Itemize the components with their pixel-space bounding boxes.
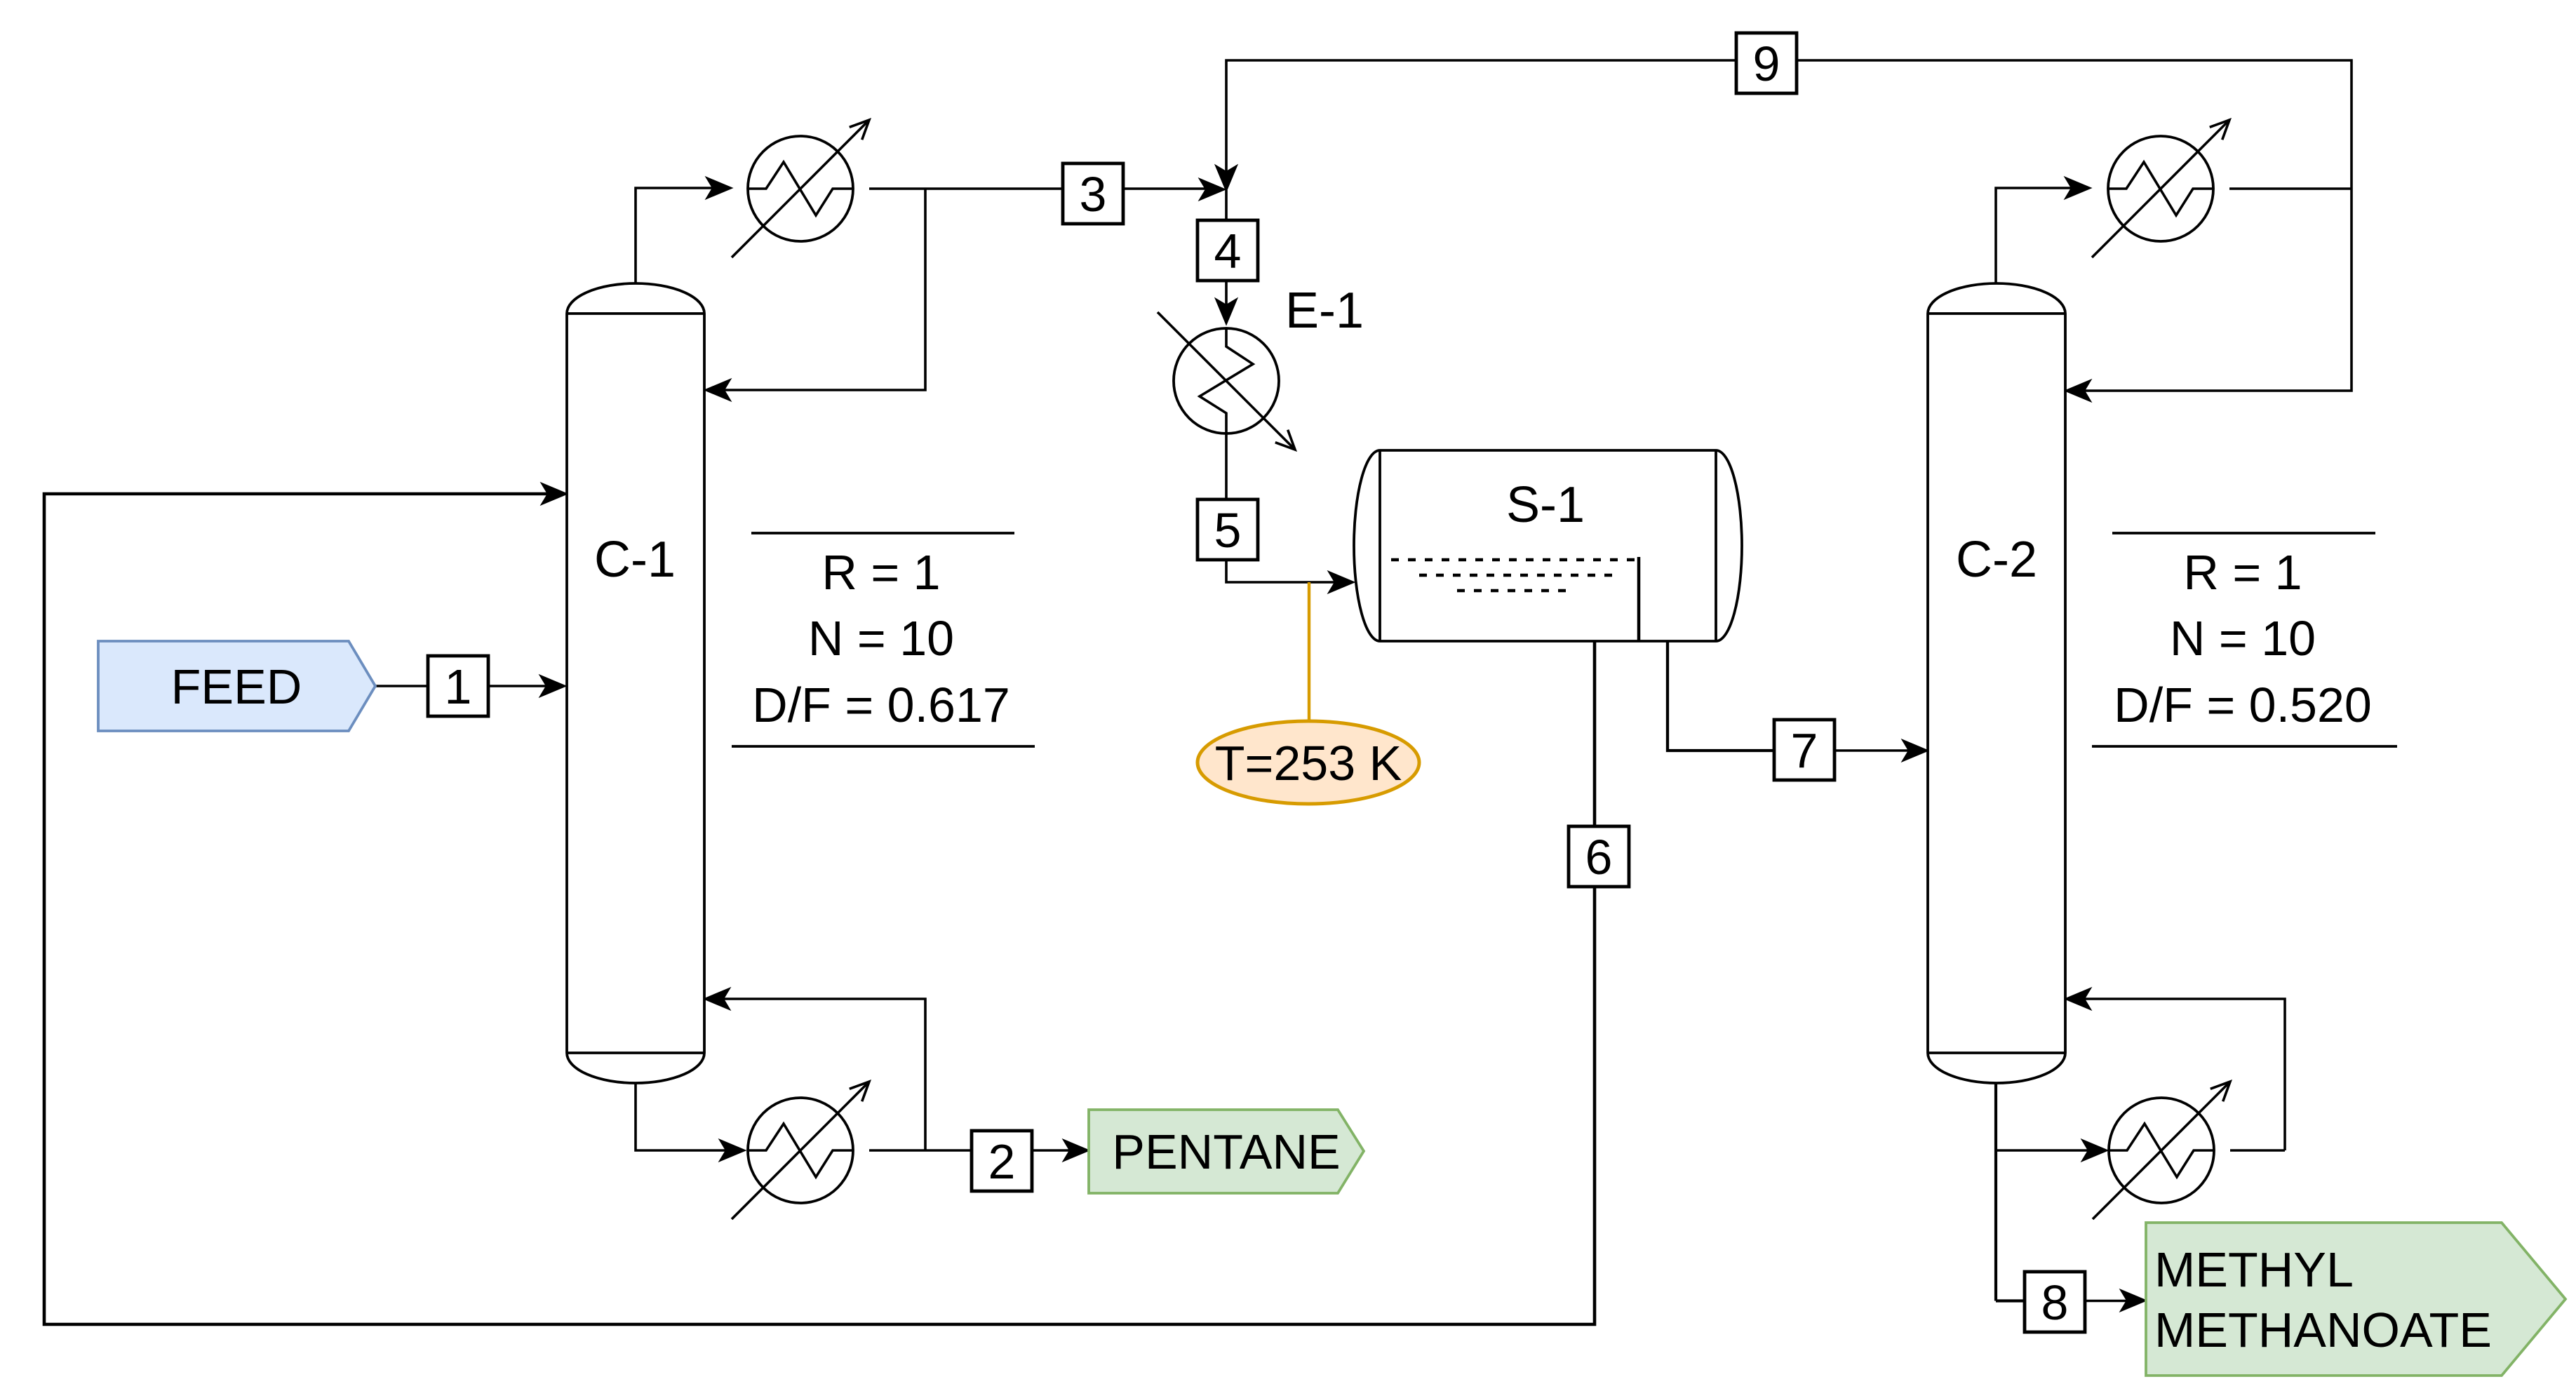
wire stream 1 from FEED to box 1: [375, 685, 428, 687]
wire stream 1 from box 1 to C-1: [488, 685, 549, 687]
svg-text:8: 8: [2041, 1275, 2069, 1330]
C-1 spec top rule: [751, 532, 1014, 535]
C-2 spec bottom rule: [2092, 745, 2397, 748]
svg-text:T=253 K: T=253 K: [1215, 736, 1402, 791]
wire stream 2 to PENTANE: [1032, 1149, 1072, 1152]
condenser of C-2: [2108, 136, 2213, 241]
svg-text:C-1: C-1: [594, 532, 676, 588]
wire stream 5 box 5 to S-1: [1226, 560, 1337, 582]
wire callout connector (orange): [1308, 582, 1310, 721]
svg-text:7: 7: [1791, 723, 1818, 778]
S-1 liquid level dashes row 1: [1391, 558, 1635, 562]
wire reflux to C-1: [722, 189, 925, 390]
cooler E-1: [1174, 328, 1279, 433]
node stream box 1: [428, 656, 488, 716]
column C-1: [567, 283, 704, 1083]
svg-text:METHYL: METHYL: [2154, 1242, 2354, 1297]
svg-text:5: 5: [1214, 503, 1242, 558]
node stream box 3: [1063, 163, 1123, 224]
svg-text:S-1: S-1: [1506, 477, 1585, 533]
wire C-1 bottoms to reboiler: [636, 1082, 728, 1150]
svg-text:9: 9: [1753, 36, 1780, 91]
svg-text:4: 4: [1214, 224, 1242, 278]
wire reboiler 1 outlet: [869, 1149, 972, 1152]
wire stream 6 recycle loop: [44, 494, 1595, 1324]
svg-text:D/F = 0.520: D/F = 0.520: [2114, 678, 2372, 732]
wire C-2 bottoms to reboiler 2: [1996, 1149, 2091, 1152]
svg-text:6: 6: [1585, 830, 1613, 885]
wire stream 4 junction to box 4: [1225, 190, 1228, 220]
svg-text:3: 3: [1080, 167, 1107, 222]
node stream box 7: [1774, 720, 1834, 780]
PENTANE product banner: [1089, 1110, 1364, 1193]
wire boilup return to C-1: [721, 999, 925, 1150]
wire C-2 bottoms: [1994, 1082, 1997, 1301]
node stream box 4: [1198, 220, 1258, 281]
temperature callout T=253 K: [1198, 721, 1419, 804]
svg-text:D/F = 0.617: D/F = 0.617: [752, 678, 1010, 732]
S-1 liquid level dashes row 2: [1419, 574, 1620, 577]
node stream box 8: [2025, 1272, 2085, 1332]
svg-text:R = 1: R = 1: [2183, 545, 2302, 600]
svg-text:1: 1: [445, 659, 472, 714]
wire stream 9 recycle: [1226, 60, 2352, 189]
reboiler of C-1: [748, 1098, 853, 1203]
node stream box 9: [1736, 33, 1797, 93]
wire stream 7 S-1 to box 7: [1668, 641, 1775, 751]
svg-text:PENTANE: PENTANE: [1112, 1124, 1340, 1179]
wire stream 8 to product: [2084, 1300, 2129, 1303]
node stream box 5: [1198, 499, 1258, 560]
wire stream 5 E-1 to box 5: [1225, 433, 1228, 499]
svg-text:N = 10: N = 10: [2170, 611, 2316, 666]
svg-text:N = 10: N = 10: [808, 611, 954, 666]
condenser of C-1: [748, 136, 853, 241]
wire stream 4 box 4 to E-1: [1225, 281, 1228, 307]
reboiler of C-2: [2109, 1098, 2214, 1203]
node stream box 6: [1569, 826, 1629, 887]
svg-text:2: 2: [988, 1134, 1016, 1189]
wire C-1 overhead vapor to condenser: [636, 188, 713, 283]
wire condenser 2 outlet: [2229, 187, 2352, 190]
wire stream 8: [1996, 1299, 2026, 1302]
svg-text:METHANOATE: METHANOATE: [2154, 1303, 2492, 1357]
svg-text:FEED: FEED: [171, 659, 302, 714]
wire stream 6 S-1 to box 6: [1593, 641, 1597, 826]
wire condenser 1 outlet to stream 3: [869, 187, 1063, 190]
svg-text:R = 1: R = 1: [821, 545, 940, 600]
S-1 liquid level dashes row 3: [1457, 589, 1567, 593]
wire stream 7 box 7 to C-2: [1834, 749, 1911, 752]
wire reboiler 2 outlet: [2230, 1149, 2285, 1152]
METHYL METHANOATE product banner: [2146, 1223, 2565, 1376]
wire boilup return to C-2: [2082, 999, 2285, 1150]
wire stream 3 to junction: [1124, 187, 1208, 190]
wire reflux to C-2: [2082, 189, 2352, 391]
S-1 weir: [1637, 557, 1641, 641]
column C-2: [1928, 283, 2065, 1083]
separator S-1: [1354, 450, 1742, 641]
C-2 spec top rule: [2112, 532, 2375, 535]
wire C-2 overhead vapor to condenser: [1996, 188, 2074, 283]
C-1 spec bottom rule: [732, 745, 1035, 748]
svg-text:C-2: C-2: [1956, 532, 2037, 588]
svg-text:E-1: E-1: [1285, 283, 1364, 339]
FEED input banner: [98, 641, 375, 731]
node stream box 2: [972, 1131, 1032, 1191]
